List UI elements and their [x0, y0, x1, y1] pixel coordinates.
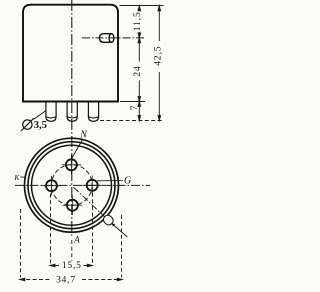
nub horizontal centerline	[82, 37, 146, 39]
dashed pin bolt circle	[51, 165, 92, 206]
extension line, pin tips (dashed)	[100, 120, 164, 122]
base view: middle circle	[28, 142, 115, 229]
vertical centerline through body and base view	[71, 0, 73, 236]
leader arrow to keying nub	[111, 223, 127, 237]
pin N (top)	[62, 155, 82, 175]
pin K (left)	[42, 176, 62, 196]
svg-text:11,5: 11,5	[133, 11, 143, 31]
diameter label ⌀3,5 with leader to pin 1	[21, 111, 46, 131]
dimension line 42,5 (x=159)	[158, 6, 161, 121]
svg-text:34,7: 34,7	[56, 276, 76, 286]
base view: inner circle	[32, 145, 112, 225]
svg-text:24: 24	[133, 65, 143, 76]
dimension line 11,5 / 24 / 7 (x=139)	[138, 6, 141, 121]
svg-text:7: 7	[130, 105, 140, 110]
horizontal centerline of base	[15, 184, 150, 186]
dashed extension: left pin (15,5)	[50, 194, 52, 264]
dimension 15,5	[50, 264, 92, 267]
dashed extension: left of circle (34,7)	[20, 209, 22, 277]
pin 1 (side view)	[46, 102, 56, 121]
svg-text:N: N	[79, 130, 88, 141]
pin A (bottom)	[63, 195, 83, 215]
pin 3 (side view)	[88, 102, 98, 121]
dimension 34,7	[20, 278, 122, 281]
base view: outer circle	[25, 138, 119, 232]
svg-text:K: K	[13, 173, 20, 182]
extension line, top of can	[120, 5, 164, 7]
locating nub on can side	[99, 34, 114, 43]
svg-text:15,5: 15,5	[62, 261, 82, 271]
keying nub on rim	[102, 214, 115, 227]
can body outline (side view)	[23, 5, 118, 102]
svg-text:A: A	[73, 234, 80, 244]
pin 2 (side view, on centerline)	[67, 102, 77, 121]
svg-text:G: G	[124, 176, 131, 187]
svg-text:42,5: 42,5	[154, 45, 164, 65]
diagonal centerline to keying nub	[74, 187, 114, 225]
dashed extension: right of nub (34,7)	[121, 215, 123, 277]
dashed continuation of vertical centerline	[71, 240, 73, 261]
extension line, bottom of can	[120, 101, 145, 103]
dashed extension: right pin (15,5)	[92, 193, 94, 263]
pin G (right)	[82, 176, 102, 196]
svg-text:3,5: 3,5	[34, 120, 47, 131]
